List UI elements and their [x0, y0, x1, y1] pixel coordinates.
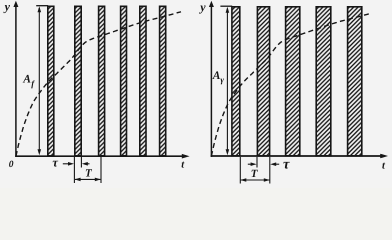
pulse bar 3 (right)	[286, 7, 300, 156]
pulse bar 3	[99, 6, 105, 156]
x-axis	[15, 154, 189, 159]
tau dimension arrows (right plot)	[248, 162, 279, 166]
pulse bar 2 (right)	[257, 7, 269, 156]
T dimension (right plot)	[240, 178, 269, 182]
svg-text:y: y	[198, 0, 206, 14]
pulse bar 5 (right)	[348, 7, 362, 156]
amplitude arrow Aγ	[226, 7, 230, 156]
svg-text:γ: γ	[220, 75, 224, 85]
amplitude arrow Af	[38, 6, 42, 155]
x-axis (right)	[211, 154, 388, 159]
T dimension (left plot)	[75, 178, 101, 182]
svg-text:τ: τ	[283, 157, 290, 173]
pulse bar 1 (right)	[232, 7, 240, 156]
y-axis (right)	[209, 1, 214, 157]
amplitude top reference line (right)	[220, 5, 232, 7]
extension line bar2 right (right plot)	[269, 157, 271, 184]
label Aγ	[212, 70, 225, 85]
pulse bar 4 (right)	[316, 7, 331, 156]
svg-text:A: A	[22, 73, 31, 85]
svg-text:A: A	[212, 70, 221, 82]
dashed envelope curve (left)	[16, 12, 181, 156]
svg-text:τ: τ	[52, 156, 58, 170]
extension line bar3 left	[100, 157, 102, 183]
amplitude top reference line	[36, 5, 48, 7]
extension line bar2 left	[73, 157, 75, 183]
label Af	[22, 73, 35, 88]
svg-text:y: y	[3, 0, 11, 14]
extension line bar2 right	[80, 157, 82, 168]
pulse bar 2	[75, 6, 81, 156]
pulse bar 5	[140, 6, 146, 156]
tau dimension arrows (left plot)	[63, 162, 90, 166]
pulse bar 1	[48, 6, 54, 156]
extension line bar2 left (right plot)	[256, 157, 258, 168]
pulse bar 4	[121, 6, 127, 156]
dashed envelope curve (right)	[211, 13, 372, 156]
svg-text:0: 0	[9, 160, 14, 170]
pulse bar 6	[160, 6, 166, 156]
y-axis	[13, 1, 18, 157]
extension line bar1 right (right plot)	[239, 157, 241, 184]
